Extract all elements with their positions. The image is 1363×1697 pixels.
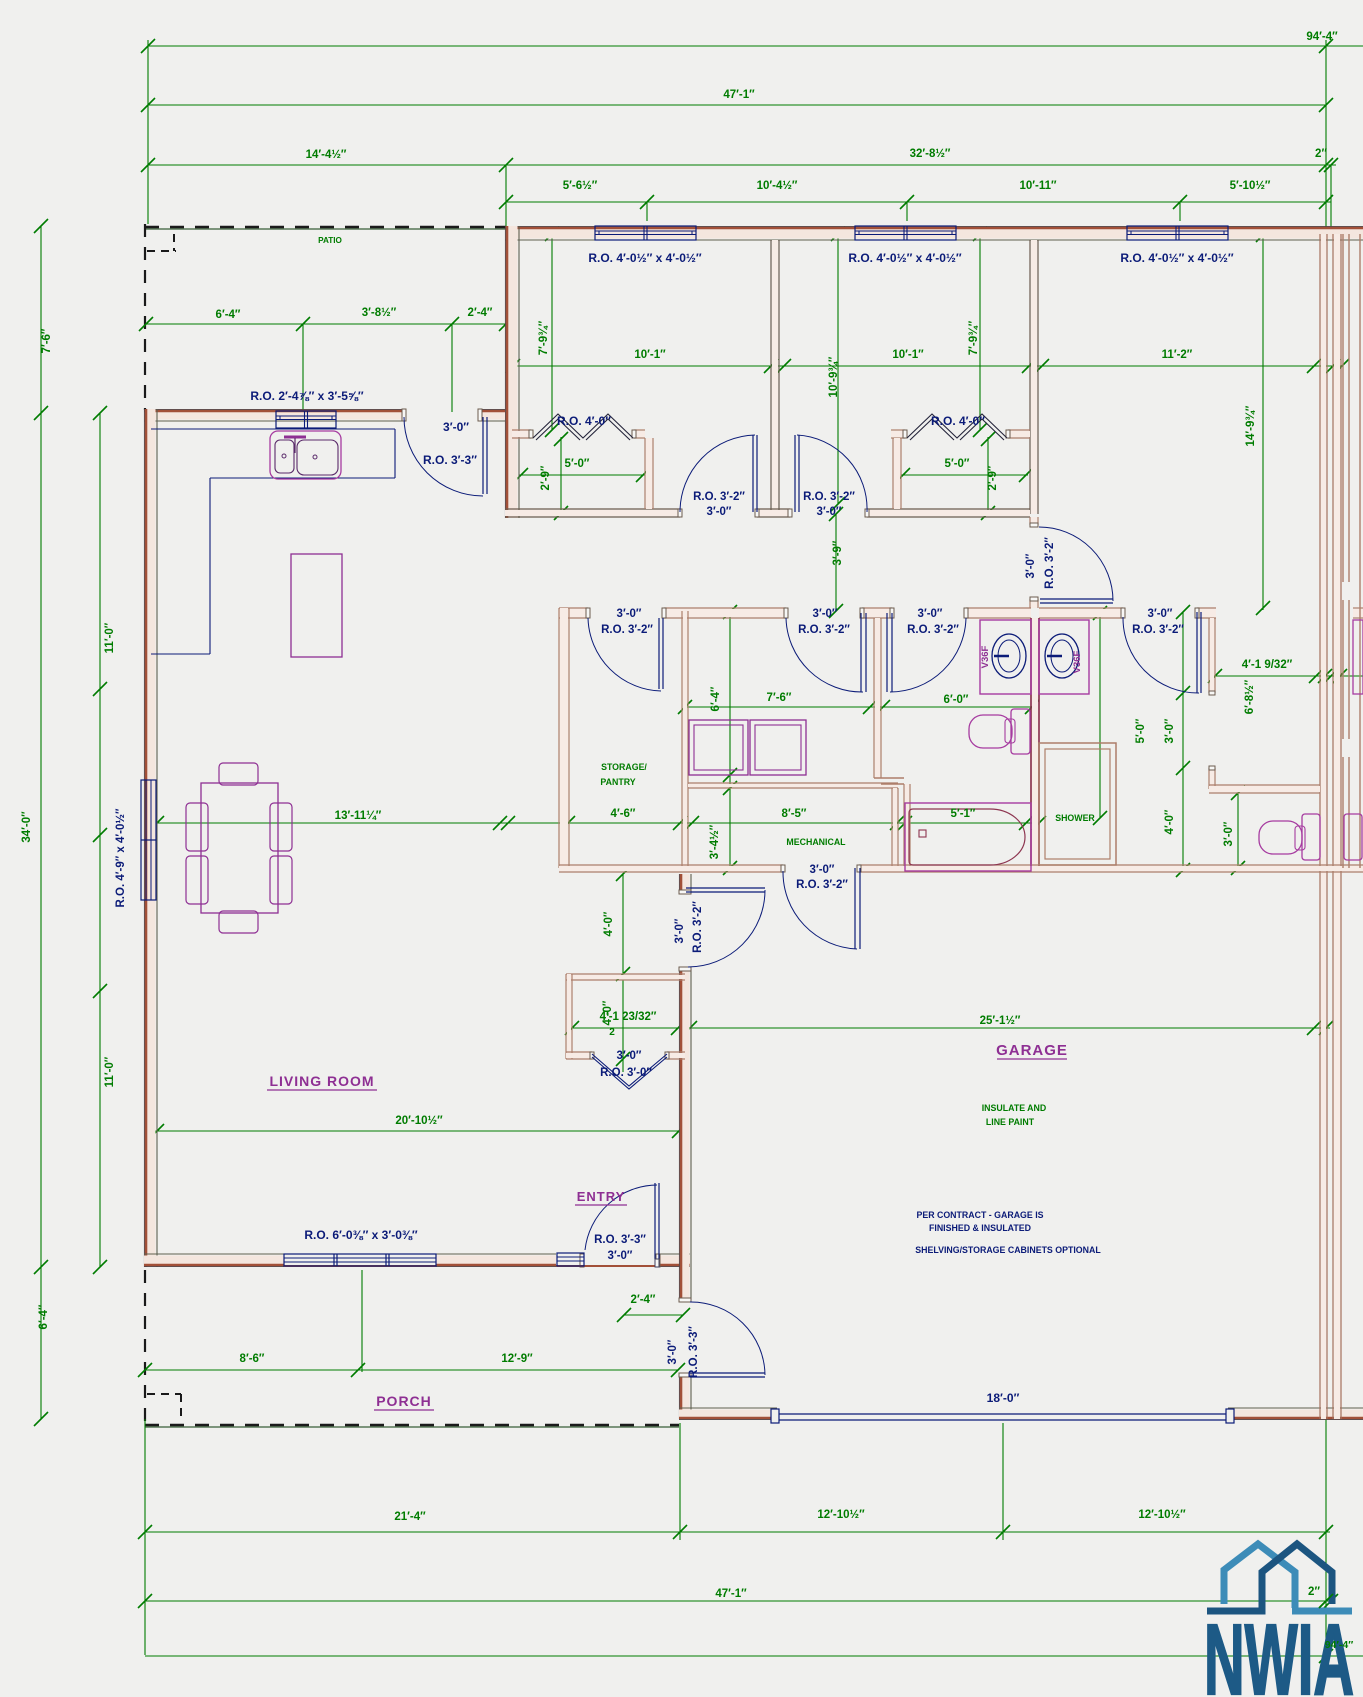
svg-text:R.O. 3′-2″: R.O. 3′-2″ xyxy=(601,624,653,636)
svg-text:3′-0″: 3′-0″ xyxy=(674,918,686,943)
svg-text:4′-0″: 4′-0″ xyxy=(603,911,615,936)
svg-text:3′-9″: 3′-9″ xyxy=(832,540,844,565)
toilet hall bath xyxy=(1011,709,1030,754)
svg-text:LIVING ROOM: LIVING ROOM xyxy=(269,1073,374,1089)
garage door xyxy=(777,1413,1228,1415)
bedroom partition 2 xyxy=(1031,240,1037,514)
bedroom3 west wall w/ door opening xyxy=(1031,517,1037,525)
long mid row 13-11 / 4-6 / 8-5 / 5-1 xyxy=(157,822,1040,824)
svg-text:V36F: V36F xyxy=(1072,650,1083,673)
bedroom partition 1 xyxy=(772,240,778,514)
svg-text:11′-0″: 11′-0″ xyxy=(104,622,116,653)
exterior top wall xyxy=(505,228,1363,239)
bedroom3 door xyxy=(1040,598,1113,600)
svg-text:4′-6″: 4′-6″ xyxy=(611,808,636,820)
bedroom2 door xyxy=(794,435,796,512)
bedroom2 7-9.75 dim xyxy=(979,234,981,430)
svg-text:10′-11″: 10′-11″ xyxy=(1019,180,1057,192)
toilet mirrored unit xyxy=(1344,814,1362,860)
svg-text:3′-0″: 3′-0″ xyxy=(617,608,642,620)
wc west wall w/ opening xyxy=(1210,618,1214,693)
closet2 bifold xyxy=(907,414,1007,438)
kitchen counter xyxy=(151,428,395,430)
svg-text:SHOWER: SHOWER xyxy=(1055,813,1095,823)
closet2 walls xyxy=(891,431,905,437)
hall 4-0 dim xyxy=(622,874,624,974)
wc south wall xyxy=(1209,786,1320,792)
svg-text:8′-5″: 8′-5″ xyxy=(782,808,807,820)
svg-text:6′-8½″: 6′-8½″ xyxy=(1244,679,1256,714)
master bath door xyxy=(1196,612,1198,693)
closet dim lines xyxy=(519,474,645,476)
svg-text:ENTRY: ENTRY xyxy=(577,1189,626,1204)
svg-text:GARAGE: GARAGE xyxy=(996,1042,1068,1059)
svg-text:3′-0″: 3′-0″ xyxy=(813,608,838,620)
svg-text:5′-10½″: 5′-10½″ xyxy=(1230,180,1271,192)
svg-text:32′-8½″: 32′-8½″ xyxy=(910,148,951,160)
svg-text:R.O. 4′-0½″ x 4′-0½″: R.O. 4′-0½″ x 4′-0½″ xyxy=(588,251,702,265)
pantry east / laundry west wall xyxy=(683,611,687,868)
svg-text:3′-0″: 3′-0″ xyxy=(817,506,842,518)
svg-text:5′-1″: 5′-1″ xyxy=(951,808,976,820)
svg-text:R.O. 4′-0″: R.O. 4′-0″ xyxy=(557,414,611,428)
bottom row 47-1 xyxy=(145,1600,1331,1602)
closet1 walls xyxy=(512,431,531,437)
porch dashed outline xyxy=(144,1270,146,1424)
svg-text:3′-0″: 3′-0″ xyxy=(1148,608,1173,620)
svg-text:2″: 2″ xyxy=(1308,1586,1320,1598)
entry sidelight window xyxy=(557,1253,584,1266)
bath separating wall xyxy=(1032,618,1038,866)
kitchen door xyxy=(482,417,484,494)
bedroom widths row xyxy=(513,365,1342,367)
vanity 2 xyxy=(1039,620,1089,694)
left inner vertical dim xyxy=(99,413,101,1267)
svg-text:R.O. 2′-4⅞″ x 3′-5⅝″: R.O. 2′-4⅞″ x 3′-5⅝″ xyxy=(250,389,364,403)
svg-text:R.O. 4′-0½″ x 4′-0½″: R.O. 4′-0½″ x 4′-0½″ xyxy=(848,251,962,265)
svg-text:34′-0″: 34′-0″ xyxy=(21,811,33,843)
svg-text:4′-1 9/32″: 4′-1 9/32″ xyxy=(1242,659,1293,671)
porch dims row xyxy=(145,1369,678,1371)
dimension line window spacing row xyxy=(506,201,1331,203)
svg-text:47′-1″: 47′-1″ xyxy=(723,89,755,101)
svg-text:94′-4″: 94′-4″ xyxy=(1325,1639,1354,1651)
svg-text:R.O. 3′-2″: R.O. 3′-2″ xyxy=(1044,537,1056,589)
svg-text:R.O. 3′-3″: R.O. 3′-3″ xyxy=(594,1234,646,1246)
svg-text:10′-4½″: 10′-4½″ xyxy=(757,180,798,192)
svg-text:2″: 2″ xyxy=(1315,148,1327,160)
porch corner mark xyxy=(147,1393,181,1395)
svg-text:PORCH: PORCH xyxy=(376,1393,432,1409)
svg-text:10′-1″: 10′-1″ xyxy=(892,349,924,361)
extension lines xyxy=(1325,40,1327,232)
dining window west wall xyxy=(141,780,156,900)
svg-text:3′-0″: 3′-0″ xyxy=(1223,821,1235,846)
hall bath door xyxy=(886,613,888,692)
mirrored vanity right edge xyxy=(1353,620,1363,694)
mechanical door xyxy=(854,868,856,949)
svg-text:STORAGE/: STORAGE/ xyxy=(601,762,647,772)
svg-text:6′-4″: 6′-4″ xyxy=(710,686,722,711)
svg-text:R.O. 3′-2″: R.O. 3′-2″ xyxy=(692,901,704,953)
bottom row 94-4 xyxy=(145,1655,1363,1657)
svg-text:INSULATE AND: INSULATE AND xyxy=(982,1103,1047,1113)
wc 4-1 9/32 row xyxy=(1211,675,1363,677)
laundry door xyxy=(860,613,862,692)
wc 3-0 dim xyxy=(1237,793,1239,868)
svg-text:7′-9¾″: 7′-9¾″ xyxy=(968,320,980,355)
2-4 row near entry xyxy=(624,1314,683,1316)
svg-text:3′-0″: 3′-0″ xyxy=(810,864,835,876)
pantry west wall xyxy=(560,608,568,868)
bedroom1 7-9.75 dim xyxy=(551,234,553,430)
bedroom south wall xyxy=(505,510,680,516)
svg-text:5′-0″: 5′-0″ xyxy=(945,458,970,470)
svg-text:2′-4″: 2′-4″ xyxy=(468,307,493,319)
svg-text:25′-1½″: 25′-1½″ xyxy=(980,1015,1021,1027)
svg-text:3′-0″: 3′-0″ xyxy=(707,506,732,518)
bath tub xyxy=(905,803,1031,871)
svg-text:7′-9¾″: 7′-9¾″ xyxy=(538,320,550,355)
svg-text:2′-4″: 2′-4″ xyxy=(631,1294,656,1306)
common double wall east xyxy=(1321,234,1326,1419)
svg-text:LINE PAINT: LINE PAINT xyxy=(986,1117,1035,1127)
bedroom3 14-9.75 dim xyxy=(1262,233,1264,610)
svg-text:R.O. 4′-0″: R.O. 4′-0″ xyxy=(931,414,985,428)
svg-text:R.O. 4′-0½″ x 4′-0½″: R.O. 4′-0½″ x 4′-0½″ xyxy=(1120,251,1234,265)
entry closet walls xyxy=(566,975,685,979)
closet1 bifold xyxy=(533,414,633,438)
svg-text:4′-0″: 4′-0″ xyxy=(1164,809,1176,834)
svg-text:10′-9¾″: 10′-9¾″ xyxy=(828,356,840,397)
svg-text:6′-4″: 6′-4″ xyxy=(38,1304,50,1329)
svg-text:3′-0″: 3′-0″ xyxy=(617,1050,642,1062)
patio dashed outline xyxy=(145,228,506,230)
svg-text:12′-9″: 12′-9″ xyxy=(501,1353,533,1365)
master bath 3-0/4-0 dim xyxy=(1182,612,1184,870)
living room 20-10.5 row xyxy=(151,1130,683,1132)
kitchen top dims row xyxy=(146,323,506,325)
bedroom2 10-9.75 dim xyxy=(837,234,839,504)
svg-text:3′-4½″: 3′-4½″ xyxy=(709,824,721,859)
svg-text:R.O. 3′-3″: R.O. 3′-3″ xyxy=(423,453,477,467)
svg-text:V36F: V36F xyxy=(980,645,991,668)
hall north wall segments xyxy=(559,609,588,617)
svg-text:R.O. 6′-0⅜″ x 3′-0⅜″: R.O. 6′-0⅜″ x 3′-0⅜″ xyxy=(304,1228,418,1242)
svg-text:10′-1″: 10′-1″ xyxy=(634,349,666,361)
dimension line 14-4.5 / 32-8.5 / 2 xyxy=(148,164,1336,166)
entry closet bifold xyxy=(592,1054,667,1086)
NWIA logo xyxy=(1207,1544,1352,1611)
svg-text:2′-9″: 2′-9″ xyxy=(987,465,999,490)
svg-text:FINISHED & INSULATED: FINISHED & INSULATED xyxy=(929,1223,1031,1233)
svg-text:18′-0″: 18′-0″ xyxy=(987,1391,1020,1405)
hall bath west wall xyxy=(875,618,880,778)
svg-text:PANTRY: PANTRY xyxy=(600,777,635,787)
svg-text:5′-0″: 5′-0″ xyxy=(565,458,590,470)
entry door xyxy=(654,1183,656,1259)
dining chairs xyxy=(186,803,208,851)
vestibule / garage 25-1.5 row xyxy=(572,1027,1330,1029)
svg-text:PER CONTRACT - GARAGE IS: PER CONTRACT - GARAGE IS xyxy=(916,1210,1043,1220)
bedroom2 window xyxy=(855,226,956,240)
svg-text:R.O. 3′-2″: R.O. 3′-2″ xyxy=(907,624,959,636)
living room window xyxy=(284,1254,436,1266)
dimension line 94ft top xyxy=(148,45,1363,47)
toilet master wc xyxy=(1302,814,1320,860)
svg-text:8′-6″: 8′-6″ xyxy=(240,1353,265,1365)
svg-text:12′-10½″: 12′-10½″ xyxy=(817,1509,865,1521)
svg-text:3′-0″: 3′-0″ xyxy=(1025,553,1037,578)
svg-text:5′-0″: 5′-0″ xyxy=(1135,718,1147,743)
garage south wall xyxy=(679,1410,777,1419)
shower xyxy=(1039,743,1116,865)
svg-text:94′-4″: 94′-4″ xyxy=(1306,31,1338,43)
shower 5-0 dim xyxy=(1099,612,1101,818)
hall-garage door xyxy=(686,887,765,889)
garage north wall xyxy=(559,866,783,871)
west exterior wall xyxy=(146,409,156,1267)
svg-text:3′-0″: 3′-0″ xyxy=(918,608,943,620)
garage west wall xyxy=(681,874,690,892)
svg-text:SHELVING/STORAGE CABINETS OPTI: SHELVING/STORAGE CABINETS OPTIONAL xyxy=(915,1245,1101,1255)
pantry door xyxy=(658,618,660,689)
svg-text:R.O. 3′-2″: R.O. 3′-2″ xyxy=(1132,624,1184,636)
svg-text:7′-6″: 7′-6″ xyxy=(41,328,53,353)
left outer vertical dim xyxy=(40,226,42,1419)
svg-text:47′-1″: 47′-1″ xyxy=(715,1588,747,1600)
laundry south / mechanical north wall xyxy=(688,784,898,787)
hall/laundry row 7-6 / 6-0 xyxy=(685,706,1032,708)
svg-text:R.O. 3′-0″: R.O. 3′-0″ xyxy=(600,1067,652,1079)
dimension line 47-1 top xyxy=(148,104,1326,106)
svg-text:20′-10½″: 20′-10½″ xyxy=(395,1115,443,1127)
kitchen window xyxy=(276,411,336,428)
svg-text:14′-4½″: 14′-4½″ xyxy=(306,149,347,161)
dining table xyxy=(201,783,278,913)
svg-text:12′-10½″: 12′-10½″ xyxy=(1138,1509,1186,1521)
svg-text:11′-2″: 11′-2″ xyxy=(1162,349,1193,361)
svg-text:11′-0″: 11′-0″ xyxy=(104,1056,116,1087)
svg-text:2: 2 xyxy=(609,1027,615,1038)
svg-text:13′-11¼″: 13′-11¼″ xyxy=(335,810,382,822)
living room south wall xyxy=(144,1256,284,1266)
svg-text:3′-0″: 3′-0″ xyxy=(443,420,469,434)
svg-text:6′-4″: 6′-4″ xyxy=(216,309,241,321)
bedroom1 door xyxy=(752,435,754,512)
svg-text:3′-0″: 3′-0″ xyxy=(667,1339,679,1364)
svg-text:R.O. 3′-2″: R.O. 3′-2″ xyxy=(693,491,745,503)
svg-text:R.O. 4′-9″ x 4′-0½″: R.O. 4′-9″ x 4′-0½″ xyxy=(115,808,127,907)
svg-text:MECHANICAL: MECHANICAL xyxy=(786,837,846,847)
laundry 6-4 / 3-4.5 dim xyxy=(729,612,731,868)
svg-text:7′-6″: 7′-6″ xyxy=(767,692,792,704)
washer xyxy=(689,720,748,775)
svg-text:6′-0″: 6′-0″ xyxy=(944,694,969,706)
svg-text:3′-0″: 3′-0″ xyxy=(1164,718,1176,743)
svg-text:R.O. 3′-2″: R.O. 3′-2″ xyxy=(796,879,848,891)
svg-text:3′-0″: 3′-0″ xyxy=(608,1250,633,1262)
svg-text:PATIO: PATIO xyxy=(318,236,342,245)
bedroom1 window xyxy=(595,226,696,240)
bedroom wing west wall xyxy=(507,226,518,518)
svg-text:2′-9″: 2′-9″ xyxy=(540,465,552,490)
hall 3-9 dim xyxy=(835,514,837,611)
svg-text:R.O. 3′-2″: R.O. 3′-2″ xyxy=(798,624,850,636)
svg-text:3′-8½″: 3′-8½″ xyxy=(362,307,397,319)
vanity 1 xyxy=(980,620,1031,694)
dryer xyxy=(750,720,806,775)
kitchen sink xyxy=(270,431,341,479)
svg-text:R.O. 3′-2″: R.O. 3′-2″ xyxy=(803,491,855,503)
mirrored unit walls right edge xyxy=(1342,234,1344,582)
svg-text:R.O. 3′-3″: R.O. 3′-3″ xyxy=(688,1326,700,1378)
kitchen island xyxy=(291,554,342,657)
bedroom3 window xyxy=(1127,226,1228,240)
svg-text:14′-9¾″: 14′-9¾″ xyxy=(1245,405,1257,446)
garage-porch door xyxy=(690,1372,765,1374)
svg-text:4′-1 23/32″: 4′-1 23/32″ xyxy=(600,1011,657,1023)
vestibule vertical dim xyxy=(622,980,624,1072)
svg-text:5′-6½″: 5′-6½″ xyxy=(563,180,598,192)
patio corner mark xyxy=(147,250,176,252)
mechanical east wall xyxy=(893,788,897,868)
svg-text:21′-4″: 21′-4″ xyxy=(394,1511,426,1523)
bottom row 21-4 / 12-10.5 x2 xyxy=(145,1531,1330,1533)
kitchen north wall xyxy=(144,411,404,420)
